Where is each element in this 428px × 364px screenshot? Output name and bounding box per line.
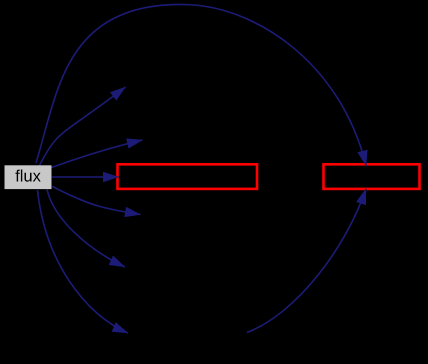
wire: fan arrow 1 (up-right) (39, 87, 125, 166)
wire: fan arrow 6 (down to bottom) (38, 190, 129, 333)
node flux (gray label box) (5, 165, 52, 189)
wire: fan arrow 3 into middle box (52, 176, 119, 178)
wire: fan arrow 4 (down-right) (52, 187, 140, 215)
wire: bottom arc into right box bottom (247, 189, 366, 333)
box B2 (right red rectangle) (324, 164, 420, 189)
label "flux" (text drawn as outlines) (15, 170, 40, 182)
wire: fan arrow 2 (52, 140, 143, 168)
wire: fan arrow 5 (down-right steeper) (47, 190, 125, 268)
box B1 (middle red rectangle) (118, 164, 258, 189)
wire: top arc from flux to right box top (36, 4, 366, 166)
